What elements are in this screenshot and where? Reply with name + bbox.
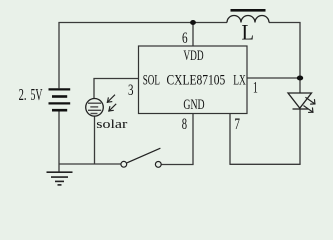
inductor L (227, 16, 269, 23)
switch S1 (121, 148, 161, 167)
wire: LED cathode down (299, 109, 301, 165)
svg-text:2.: 2. (19, 85, 27, 104)
solar cell (86, 99, 104, 117)
svg-text:7: 7 (234, 116, 240, 133)
wire: inductor right to corner (269, 22, 301, 24)
svg-text:solar: solar (96, 117, 128, 131)
wire: switch to pin 8 (161, 164, 193, 166)
wire: ground rail to switch (59, 163, 121, 165)
solar light arrows (107, 95, 115, 111)
wire: right vertical to LED junction (299, 23, 301, 94)
svg-text:1: 1 (253, 80, 258, 97)
battery 2.5V (49, 89, 71, 110)
wire: SOL pin horizontal (94, 79, 139, 99)
wire: battery bottom vertical (58, 111, 60, 172)
svg-text:GND: GND (183, 97, 204, 113)
wire: battery top vertical (58, 23, 60, 89)
svg-text:3: 3 (128, 82, 134, 99)
svg-text:L: L (242, 19, 255, 44)
svg-text:6: 6 (182, 30, 188, 47)
LED D1 (288, 93, 312, 109)
wire: LED bottom horizontal (230, 163, 301, 165)
svg-text:VDD: VDD (183, 48, 203, 64)
wire: pin 8 drop (192, 114, 194, 165)
junction node at LX/LED (297, 76, 303, 81)
wire: LX pin horizontal (247, 77, 300, 79)
svg-text:SOL: SOL (143, 72, 160, 88)
wire: pin 6 drop (192, 23, 194, 47)
svg-text:CXLE87105: CXLE87105 (167, 72, 226, 88)
wire: top rail to inductor (58, 22, 227, 24)
IC U1 CXLE87105 (139, 46, 248, 114)
inductor core bar (231, 9, 266, 12)
svg-text:LX: LX (233, 72, 246, 88)
ground (47, 172, 73, 185)
LED emission arrows (304, 98, 315, 113)
wire: solar bottom vertical (94, 116, 96, 164)
svg-text:8: 8 (182, 116, 187, 133)
junction node at pin6/top rail (190, 20, 196, 25)
wire: pin 7 drop (229, 114, 231, 165)
svg-text:5V: 5V (31, 85, 43, 104)
